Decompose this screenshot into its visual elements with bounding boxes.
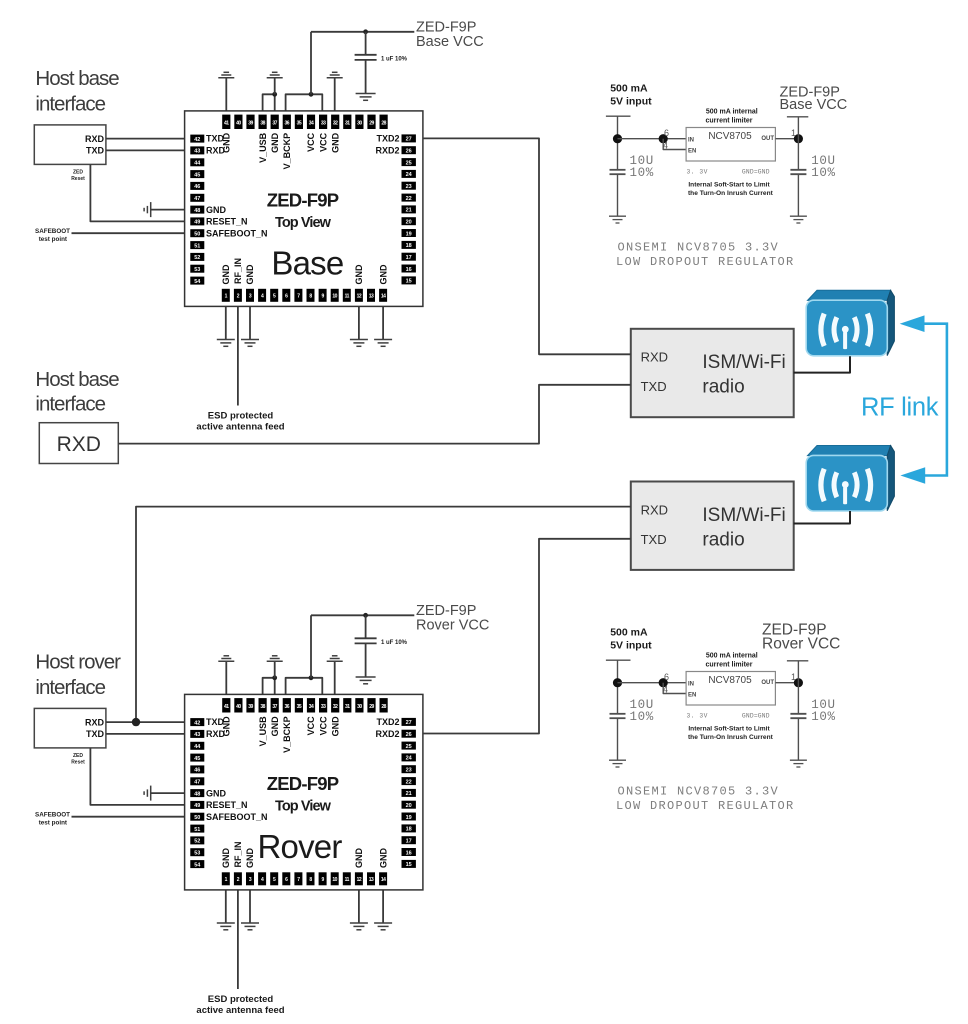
svg-text:RF_IN: RF_IN [233, 258, 243, 284]
svg-text:ISM/Wi-Fi: ISM/Wi-Fi [702, 352, 785, 373]
svg-text:40: 40 [236, 704, 241, 710]
svg-text:30: 30 [357, 704, 362, 710]
svg-text:IN: IN [688, 137, 694, 143]
svg-text:44: 44 [194, 161, 201, 167]
svg-text:Rover VCC: Rover VCC [416, 617, 489, 633]
svg-text:ESD protected: ESD protected [208, 410, 274, 421]
svg-text:GND: GND [221, 848, 231, 869]
svg-text:RXD: RXD [85, 717, 105, 727]
svg-text:V_BCKP: V_BCKP [282, 133, 292, 170]
svg-text:20: 20 [406, 220, 412, 226]
svg-text:Rover VCC: Rover VCC [762, 636, 840, 653]
svg-text:52: 52 [194, 255, 200, 261]
svg-text:34: 34 [309, 704, 314, 710]
svg-text:VCC: VCC [318, 132, 328, 152]
svg-text:TXD: TXD [86, 145, 105, 155]
svg-text:22: 22 [406, 779, 412, 785]
svg-text:18: 18 [406, 243, 412, 249]
svg-text:TXD: TXD [86, 729, 105, 739]
svg-text:10: 10 [332, 293, 337, 299]
svg-text:35: 35 [297, 121, 302, 127]
svg-text:48: 48 [194, 791, 200, 797]
svg-text:10%: 10% [811, 166, 835, 180]
svg-text:Reset: Reset [71, 176, 85, 182]
svg-text:46: 46 [194, 768, 200, 774]
svg-text:45: 45 [194, 172, 200, 178]
svg-text:13: 13 [369, 877, 374, 883]
svg-text:1 uF 10%: 1 uF 10% [381, 56, 408, 62]
svg-text:42: 42 [194, 720, 200, 726]
svg-text:LOW DROPOUT REGULATOR: LOW DROPOUT REGULATOR [616, 799, 795, 813]
svg-text:42: 42 [194, 137, 200, 143]
svg-text:Base VCC: Base VCC [416, 34, 484, 50]
svg-text:18: 18 [406, 827, 412, 833]
svg-text:V_BCKP: V_BCKP [282, 716, 292, 753]
svg-text:GND: GND [354, 264, 364, 285]
svg-text:GND: GND [206, 788, 227, 798]
svg-text:NCV8705: NCV8705 [708, 131, 752, 142]
svg-text:1 uF 10%: 1 uF 10% [381, 640, 408, 646]
svg-text:33: 33 [321, 704, 326, 710]
svg-text:GND=GND: GND=GND [742, 713, 770, 720]
svg-text:radio: radio [702, 377, 744, 398]
svg-text:V_USB: V_USB [258, 132, 268, 163]
svg-text:10: 10 [332, 877, 337, 883]
svg-text:500 mA: 500 mA [610, 83, 648, 95]
svg-text:32: 32 [333, 704, 338, 710]
svg-text:RXD: RXD [85, 134, 105, 144]
svg-text:36: 36 [285, 121, 290, 127]
svg-text:ZED-F9P: ZED-F9P [267, 190, 339, 211]
svg-text:EN: EN [688, 692, 696, 698]
svg-text:14: 14 [381, 877, 386, 883]
svg-text:35: 35 [297, 704, 302, 710]
svg-text:14: 14 [381, 293, 386, 299]
svg-text:15: 15 [406, 279, 412, 285]
svg-text:Top View: Top View [275, 215, 332, 231]
svg-text:20: 20 [406, 803, 412, 809]
svg-text:RF link: RF link [861, 394, 939, 422]
svg-text:test point: test point [39, 819, 68, 826]
svg-text:SAFEBOOT_N: SAFEBOOT_N [206, 812, 268, 822]
svg-text:1: 1 [791, 128, 796, 138]
svg-text:RXD2: RXD2 [375, 729, 399, 739]
svg-text:54: 54 [194, 862, 201, 868]
svg-text:GND: GND [222, 132, 232, 153]
svg-text:Reset: Reset [71, 760, 85, 766]
svg-text:TXD2: TXD2 [376, 717, 399, 727]
svg-text:GND: GND [222, 716, 232, 737]
svg-text:radio: radio [702, 529, 744, 550]
svg-text:47: 47 [194, 196, 200, 202]
svg-text:RXD: RXD [641, 350, 668, 365]
svg-text:500 mA internal: 500 mA internal [706, 108, 758, 115]
svg-text:40: 40 [236, 121, 241, 127]
svg-text:4: 4 [663, 141, 668, 151]
svg-text:GND: GND [330, 716, 340, 737]
svg-text:RF_IN: RF_IN [233, 841, 243, 867]
svg-text:28: 28 [381, 704, 386, 710]
svg-text:RXD: RXD [641, 502, 668, 517]
svg-text:49: 49 [194, 220, 200, 226]
svg-text:3. 3V: 3. 3V [687, 169, 708, 176]
svg-text:VCC: VCC [318, 716, 328, 736]
svg-text:GND: GND [330, 132, 340, 153]
svg-text:46: 46 [194, 184, 200, 190]
svg-text:interface: interface [35, 93, 105, 116]
svg-text:47: 47 [194, 780, 200, 786]
svg-text:TXD: TXD [641, 379, 667, 394]
svg-text:Host base: Host base [35, 368, 119, 391]
svg-text:ZED-F9P: ZED-F9P [267, 773, 339, 794]
svg-text:GND: GND [378, 264, 388, 285]
svg-text:IN: IN [688, 681, 694, 687]
svg-text:ZED: ZED [73, 170, 83, 176]
svg-text:27: 27 [406, 137, 412, 143]
svg-text:GND: GND [221, 264, 231, 285]
svg-text:26: 26 [406, 149, 412, 155]
svg-text:52: 52 [194, 839, 200, 845]
svg-text:24: 24 [406, 172, 413, 178]
svg-text:500 mA: 500 mA [610, 627, 648, 639]
svg-text:interface: interface [35, 393, 105, 416]
svg-text:49: 49 [194, 803, 200, 809]
svg-text:26: 26 [406, 732, 412, 738]
svg-text:500 mA internal: 500 mA internal [706, 652, 758, 659]
svg-text:OUT: OUT [761, 136, 774, 142]
svg-text:23: 23 [406, 768, 412, 774]
svg-text:test point: test point [39, 236, 68, 243]
svg-text:31: 31 [345, 704, 350, 710]
svg-text:44: 44 [194, 744, 201, 750]
svg-text:GND: GND [378, 848, 388, 869]
svg-text:GND: GND [270, 716, 280, 737]
svg-text:Base VCC: Base VCC [780, 97, 848, 113]
svg-text:GND: GND [245, 848, 255, 869]
svg-text:SAFEBOOT: SAFEBOOT [35, 228, 70, 235]
svg-text:25: 25 [406, 744, 412, 750]
svg-text:Top View: Top View [275, 798, 332, 814]
svg-text:the Turn-On Inrush Current: the Turn-On Inrush Current [688, 190, 774, 197]
svg-text:current limiter: current limiter [705, 117, 752, 124]
svg-text:VCC: VCC [306, 132, 316, 152]
svg-text:6: 6 [664, 672, 669, 682]
svg-text:RXD: RXD [57, 433, 101, 456]
svg-text:ISM/Wi-Fi: ISM/Wi-Fi [702, 505, 785, 526]
svg-text:5V input: 5V input [610, 639, 652, 651]
svg-text:22: 22 [406, 196, 412, 202]
svg-text:19: 19 [406, 815, 412, 821]
svg-text:TXD2: TXD2 [376, 134, 399, 144]
svg-text:27: 27 [406, 720, 412, 726]
svg-text:Host base: Host base [35, 67, 119, 90]
svg-text:23: 23 [406, 184, 412, 190]
svg-text:interface: interface [35, 676, 105, 699]
svg-text:37: 37 [272, 704, 277, 710]
svg-text:43: 43 [194, 732, 200, 738]
svg-text:17: 17 [406, 839, 412, 845]
svg-text:34: 34 [309, 121, 314, 127]
svg-text:10%: 10% [630, 166, 654, 180]
svg-text:53: 53 [194, 267, 200, 273]
svg-text:RESET_N: RESET_N [206, 800, 248, 810]
svg-text:GND: GND [270, 132, 280, 153]
svg-text:11: 11 [345, 877, 350, 883]
svg-text:RXD2: RXD2 [375, 145, 399, 155]
svg-text:SAFEBOOT_N: SAFEBOOT_N [206, 229, 268, 239]
svg-text:54: 54 [194, 279, 201, 285]
svg-text:39: 39 [248, 704, 253, 710]
svg-text:30: 30 [357, 121, 362, 127]
svg-text:28: 28 [381, 121, 386, 127]
svg-text:GND: GND [245, 264, 255, 285]
svg-text:ONSEMI NCV8705 3.3V: ONSEMI NCV8705 3.3V [618, 785, 780, 799]
svg-text:33: 33 [321, 121, 326, 127]
svg-text:GND: GND [354, 848, 364, 869]
svg-text:43: 43 [194, 149, 200, 155]
svg-text:active antenna feed: active antenna feed [196, 421, 284, 432]
svg-text:10%: 10% [811, 710, 835, 724]
svg-text:GND: GND [206, 205, 227, 215]
svg-text:13: 13 [369, 293, 374, 299]
svg-text:48: 48 [194, 208, 200, 214]
svg-text:VCC: VCC [306, 716, 316, 736]
svg-text:Base: Base [271, 244, 343, 281]
svg-text:Host rover: Host rover [35, 651, 121, 674]
svg-text:1: 1 [791, 672, 796, 682]
svg-text:17: 17 [406, 255, 412, 261]
svg-text:11: 11 [345, 293, 350, 299]
svg-text:Internal Soft-Start to Limit: Internal Soft-Start to Limit [688, 182, 770, 189]
svg-text:NCV8705: NCV8705 [708, 675, 752, 686]
svg-text:45: 45 [194, 756, 200, 762]
svg-text:10%: 10% [630, 710, 654, 724]
svg-text:4: 4 [663, 685, 668, 695]
svg-text:25: 25 [406, 160, 412, 166]
svg-text:TXD: TXD [641, 532, 667, 547]
svg-text:39: 39 [248, 121, 253, 127]
svg-text:19: 19 [406, 231, 412, 237]
svg-text:active antenna feed: active antenna feed [196, 1005, 284, 1016]
svg-text:GND=GND: GND=GND [742, 169, 770, 176]
svg-text:38: 38 [260, 121, 265, 127]
svg-text:ESD protected: ESD protected [208, 994, 274, 1005]
svg-text:Rover: Rover [257, 828, 342, 865]
svg-text:41: 41 [224, 704, 229, 710]
svg-text:15: 15 [406, 862, 412, 868]
svg-text:37: 37 [272, 121, 277, 127]
svg-text:24: 24 [406, 756, 413, 762]
svg-text:the Turn-On Inrush Current: the Turn-On Inrush Current [688, 734, 774, 741]
svg-text:31: 31 [345, 121, 350, 127]
svg-text:16: 16 [406, 267, 412, 273]
svg-text:SAFEBOOT: SAFEBOOT [35, 812, 70, 819]
svg-text:50: 50 [194, 815, 200, 821]
svg-text:16: 16 [406, 850, 412, 856]
svg-text:51: 51 [194, 827, 200, 833]
svg-text:LOW DROPOUT REGULATOR: LOW DROPOUT REGULATOR [616, 255, 795, 269]
svg-text:ONSEMI NCV8705 3.3V: ONSEMI NCV8705 3.3V [618, 241, 780, 255]
svg-text:21: 21 [406, 791, 412, 797]
svg-text:12: 12 [357, 293, 362, 299]
svg-text:32: 32 [333, 121, 338, 127]
svg-text:38: 38 [260, 704, 265, 710]
svg-text:6: 6 [664, 128, 669, 138]
svg-text:53: 53 [194, 851, 200, 857]
svg-text:5V input: 5V input [610, 95, 652, 107]
svg-text:Internal Soft-Start to Limit: Internal Soft-Start to Limit [688, 726, 770, 733]
svg-text:ZED: ZED [73, 753, 83, 759]
svg-text:29: 29 [369, 704, 374, 710]
svg-text:41: 41 [224, 121, 229, 127]
svg-text:current limiter: current limiter [705, 661, 752, 668]
svg-text:EN: EN [688, 148, 696, 154]
svg-text:3. 3V: 3. 3V [687, 713, 708, 720]
svg-text:21: 21 [406, 208, 412, 214]
svg-text:12: 12 [357, 877, 362, 883]
svg-text:51: 51 [194, 243, 200, 249]
svg-text:29: 29 [369, 121, 374, 127]
svg-text:OUT: OUT [761, 680, 774, 686]
svg-text:V_USB: V_USB [258, 716, 268, 747]
svg-text:50: 50 [194, 232, 200, 238]
svg-text:36: 36 [285, 704, 290, 710]
svg-text:RESET_N: RESET_N [206, 217, 248, 227]
